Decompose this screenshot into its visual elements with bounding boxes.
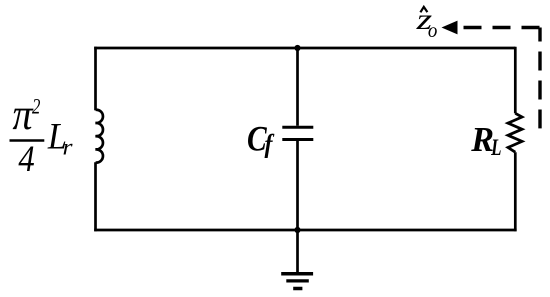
- svg-text:r: r: [63, 134, 73, 160]
- wire left lower stub: [94, 162, 97, 231]
- resistor RL zigzag: [508, 113, 522, 152]
- node junction dot top: [294, 45, 300, 51]
- capacitor Cf bottom plate: [282, 138, 313, 141]
- ground bar 3: [293, 287, 302, 291]
- label 4 (denominator): [18, 138, 34, 179]
- dashed z_o probe line horizontal: [459, 26, 540, 29]
- svg-text:o: o: [428, 19, 438, 42]
- inductor (pi^2/4)Lr coil: [96, 110, 103, 163]
- label z of z_o (impedance): [415, 3, 432, 36]
- capacitor Cf top plate: [282, 126, 313, 129]
- fraction bar: [10, 139, 45, 142]
- label r subscript of Lr: [63, 134, 73, 160]
- svg-text:f: f: [264, 129, 274, 159]
- node junction dot bottom: [294, 227, 300, 233]
- wire ground stem: [296, 230, 299, 274]
- svg-text:4: 4: [18, 138, 34, 179]
- wire left upper stub: [94, 47, 97, 111]
- hat accent over z: [420, 7, 427, 12]
- label L of Lr (inductor): [47, 115, 67, 156]
- svg-text:2: 2: [32, 96, 41, 120]
- ground bar 1: [281, 272, 313, 276]
- wire capacitor bottom lead: [296, 141, 299, 230]
- svg-text:L: L: [490, 136, 501, 161]
- label R of RL (resistor): [470, 121, 494, 159]
- svg-text:π: π: [12, 90, 34, 139]
- label C of Cf (capacitor): [247, 120, 268, 159]
- ground bar 2: [286, 279, 309, 282]
- arrowhead pointing left: [442, 21, 458, 35]
- label exponent 2: [32, 96, 41, 120]
- wire capacitor top lead: [296, 48, 299, 126]
- label o subscript of z_o: [428, 19, 438, 42]
- wire right upper stub: [514, 47, 517, 114]
- label f subscript of Cf: [264, 129, 274, 159]
- wire bottom node: [94, 229, 516, 232]
- dashed z_o probe line vertical: [538, 28, 541, 129]
- label L subscript of RL: [490, 136, 501, 161]
- wire right lower stub: [514, 152, 517, 231]
- wire top node: [94, 47, 515, 50]
- label pi (numerator of pi^2/4): [12, 90, 34, 139]
